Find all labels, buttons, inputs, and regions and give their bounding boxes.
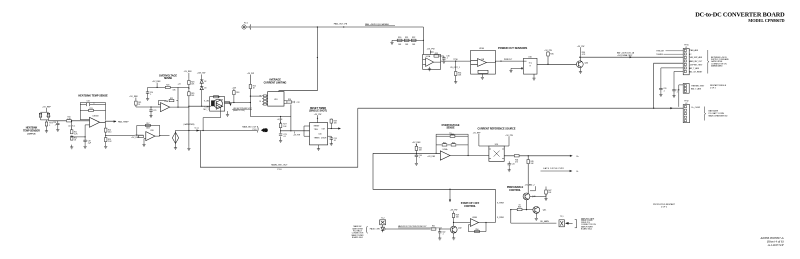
wire output to diamond xyxy=(155,135,170,138)
wire rail bottom to timer xyxy=(250,116,291,118)
svg-text:R17: R17 xyxy=(146,123,149,125)
arrowhead xyxy=(114,120,117,122)
svg-text:.1: .1 xyxy=(663,90,665,92)
svg-text:A-14163 S/P: A-14163 S/P xyxy=(767,243,784,247)
svg-text:TRIG: TRIG xyxy=(314,129,319,131)
rail wire down xyxy=(249,75,251,117)
svg-text:MODEL CPN8067D: MODEL CPN8067D xyxy=(748,18,784,23)
ground under Q42 xyxy=(453,233,455,236)
wire Q30 to connector J1 xyxy=(580,56,683,58)
junction at R23 node xyxy=(188,88,189,89)
svg-text:1K: 1K xyxy=(259,96,261,98)
svg-text:BOARD GB-1: BOARD GB-1 xyxy=(352,236,363,239)
resistor R48 xyxy=(517,208,522,210)
feedback loop xyxy=(436,134,468,155)
svg-text:TEMP SENSOR: TEMP SENSOR xyxy=(23,130,40,132)
feedback resistor R42 xyxy=(442,144,447,146)
svg-text:LM358: LM358 xyxy=(93,116,99,118)
svg-text:P2,1: P2,1 xyxy=(244,22,248,24)
op-amp U1A xyxy=(161,103,170,112)
op-amp U20A xyxy=(440,151,450,160)
svg-text:R1: R1 xyxy=(39,114,41,116)
bracket xyxy=(365,226,368,233)
transistor Q30 xyxy=(576,61,583,68)
svg-text:S_PWM: S_PWM xyxy=(497,202,504,204)
connector J2 body xyxy=(683,105,689,123)
svg-text:MAINBOARD: MAINBOARD xyxy=(711,65,723,68)
svg-text:R50: R50 xyxy=(475,229,478,231)
feedback resistor R17 xyxy=(143,124,145,127)
resistor R10 series xyxy=(67,120,72,122)
svg-text:P1-9: P1-9 xyxy=(253,129,257,131)
wire op-amp output xyxy=(441,60,471,62)
svg-text:DISCH: DISCH xyxy=(321,138,327,140)
feedback loop box xyxy=(137,125,160,135)
wire node down to SD_MAIN wire xyxy=(510,210,512,224)
ground xyxy=(279,138,282,142)
svg-text:.1: .1 xyxy=(150,94,151,96)
svg-text:SD_MAIN: SD_MAIN xyxy=(540,220,549,223)
capacitor C30 xyxy=(442,58,445,59)
svg-text:2 OF 2: 2 OF 2 xyxy=(710,87,716,89)
svg-text:R31: R31 xyxy=(405,37,408,39)
resistor R2 xyxy=(47,113,50,117)
bracket right of J2 xyxy=(705,107,706,121)
connector J1 body xyxy=(683,49,689,75)
output pins right xyxy=(284,101,287,104)
svg-text:THRES: THRES xyxy=(314,138,321,140)
resistor R23 xyxy=(188,73,190,78)
svg-text:BOARD GB-2: BOARD GB-2 xyxy=(581,228,592,231)
capacitor C21 below xyxy=(150,107,152,110)
resistor R44 xyxy=(514,155,519,157)
bypass cap C31 xyxy=(661,68,683,88)
resistor R47 with ground xyxy=(530,187,546,197)
resistor R15 xyxy=(104,138,107,142)
capacitor C20 to ground xyxy=(147,87,149,92)
stub + resistor R49 xyxy=(453,211,455,226)
svg-text:CURRENT LIMITING: CURRENT LIMITING xyxy=(264,81,287,84)
stub from label xyxy=(530,186,535,191)
resistor R29 xyxy=(188,92,191,96)
wire op-amp out to U24 xyxy=(450,155,489,157)
svg-text:BAT_CH_HIBNT: BAT_CH_HIBNT xyxy=(689,70,703,73)
svg-text:U24: U24 xyxy=(495,144,498,146)
svg-text:U20B: U20B xyxy=(472,217,477,219)
svg-text:R42: R42 xyxy=(443,142,446,144)
wire Q2 emitter down-left xyxy=(203,108,221,131)
svg-text:R22: R22 xyxy=(170,98,173,100)
svg-text:S_CL: S_CL xyxy=(195,128,200,130)
svg-text:HEATSINK TEMP SENSE: HEATSINK TEMP SENSE xyxy=(78,95,108,98)
ground under divider xyxy=(70,145,73,149)
svg-text:(SHEET 2 OF 6): (SHEET 2 OF 6) xyxy=(233,110,245,112)
svg-text:.1: .1 xyxy=(446,58,448,60)
svg-text:.1: .1 xyxy=(419,157,420,159)
wire main net up into pin 4 xyxy=(654,63,684,108)
op-amp U15A (in box) xyxy=(423,55,441,70)
resistor on box top xyxy=(214,96,219,98)
main long wire to J2 xyxy=(358,107,683,109)
wire: box outline xyxy=(200,108,357,167)
svg-text:R32: R32 xyxy=(412,37,415,39)
output wire xyxy=(328,128,340,130)
svg-text:T2,1: T2,1 xyxy=(560,216,564,218)
resistor R30 xyxy=(397,39,402,41)
svg-text:GATE DRIVE PWR: GATE DRIVE PWR xyxy=(543,167,564,170)
junction dots xyxy=(233,102,234,103)
junction node xyxy=(105,132,107,137)
svg-text:Q42: Q42 xyxy=(458,228,462,230)
bypass cap C32 xyxy=(674,72,683,90)
bracket xyxy=(575,220,577,228)
wire horizontal top xyxy=(148,87,189,99)
cap C41 under U24 xyxy=(508,161,510,163)
svg-text:THERM: THERM xyxy=(656,54,663,56)
ground under op-amp xyxy=(428,67,431,71)
lower pin group of J1 xyxy=(683,84,689,94)
svg-text:SENSE: SENSE xyxy=(446,127,455,130)
wire stub from +5V_REF xyxy=(41,108,49,121)
svg-text:+5V_REF: +5V_REF xyxy=(152,81,162,83)
bold arrow-dot symbol xyxy=(261,128,264,132)
svg-text:2 OF 2: 2 OF 2 xyxy=(661,206,668,208)
wire opto to Q42 xyxy=(383,228,451,230)
svg-text:+5V_REF: +5V_REF xyxy=(183,71,192,73)
ground under Q41 xyxy=(535,213,537,216)
svg-text:RESET: RESET xyxy=(314,126,320,128)
svg-text:CONTROL: CONTROL xyxy=(509,189,521,192)
svg-text:PWRCUT: PWRCUT xyxy=(504,59,513,61)
resistor R12 xyxy=(70,136,73,140)
svg-text:T1,2: T1,2 xyxy=(381,218,385,220)
svg-text:1K: 1K xyxy=(259,101,261,103)
wire node to op-amp xyxy=(416,152,440,154)
svg-text:BAT_T_ABS: BAT_T_ABS xyxy=(689,67,700,70)
svg-text:R41: R41 xyxy=(451,134,454,136)
svg-text:SENSE: SENSE xyxy=(164,77,173,80)
resistor R32 xyxy=(411,39,416,41)
svg-text:U20: U20 xyxy=(319,133,322,135)
feedback cap C34 xyxy=(80,104,105,106)
cap C23 xyxy=(279,134,282,135)
svg-text:+5V@50MA TEST: +5V@50MA TEST xyxy=(617,54,633,57)
wire stub lower pins down xyxy=(679,85,683,107)
svg-text:CONTROL: CONTROL xyxy=(464,205,476,208)
zener diode D3 xyxy=(201,83,203,86)
resistor R20 on wire xyxy=(165,86,170,88)
svg-text:+5V_PW: +5V_PW xyxy=(293,135,300,137)
ground xyxy=(442,59,445,63)
feedback loop xyxy=(158,100,178,107)
svg-text:FAN +24VDC@0.3A MAX: FAN +24VDC@0.3A MAX xyxy=(365,23,389,26)
resistor R45 xyxy=(527,160,530,164)
resistor R25 on rail xyxy=(249,85,252,89)
svg-text:BAT_T_ABS: BAT_T_ABS xyxy=(691,87,702,90)
svg-text:+24V_SW: +24V_SW xyxy=(197,73,206,75)
IC U19 xyxy=(268,92,284,107)
ground xyxy=(415,161,418,165)
op-amp U20B xyxy=(470,219,478,227)
svg-text:+24: +24 xyxy=(178,83,181,85)
rail from R44 node down xyxy=(527,156,529,193)
resistor R50 in loop xyxy=(475,230,480,232)
ground xyxy=(392,39,394,41)
resistor R14 xyxy=(105,122,107,128)
capacitor C29 xyxy=(84,137,86,140)
feedback loop wires xyxy=(80,103,105,120)
wire input from R14 node xyxy=(135,134,144,136)
junction on vertical xyxy=(317,57,318,58)
svg-text:U20A: U20A xyxy=(443,148,448,151)
wire sense node to op-amp xyxy=(49,120,90,122)
svg-text:.1µF: .1µF xyxy=(88,142,91,144)
svg-text:R20: R20 xyxy=(166,85,169,87)
svg-text:.01: .01 xyxy=(334,140,336,142)
junction to PWM enable xyxy=(528,155,529,156)
SD_MAIN wire xyxy=(511,222,557,224)
svg-text:.1: .1 xyxy=(54,124,55,126)
svg-text:+5V_BAT_2: +5V_BAT_2 xyxy=(524,183,534,186)
resistor R1 xyxy=(39,113,42,117)
wire: vertical x=317 from fan wire down xyxy=(316,27,318,91)
svg-text:MAIN_INV_OUT: MAIN_INV_OUT xyxy=(271,164,288,167)
arrowhead at end xyxy=(570,155,573,157)
left feedback wire xyxy=(304,126,310,136)
feedback resistor R43 xyxy=(451,144,456,146)
svg-text:MAIN CHARGER BD: MAIN CHARGER BD xyxy=(709,115,728,118)
wire node horizontal xyxy=(511,209,533,211)
svg-text:MC_T: MC_T xyxy=(204,109,210,111)
svg-text:D3: D3 xyxy=(204,88,206,90)
svg-text:C34: C34 xyxy=(86,101,89,103)
wire divider down xyxy=(71,121,73,145)
arrow symbol xyxy=(566,222,573,224)
svg-text:(GTP) S: (GTP) S xyxy=(27,134,36,136)
wire output right xyxy=(178,106,189,108)
zener diode D2 xyxy=(201,74,203,79)
wire op-amp output xyxy=(100,121,116,122)
bracket xyxy=(256,126,259,133)
timer IC U20 xyxy=(310,123,328,145)
wire: corner down to power cut sensor xyxy=(422,27,424,55)
cap C24 xyxy=(328,136,332,138)
wire fan +24V horizontal xyxy=(246,26,423,28)
feedback resistor R41 (top) xyxy=(450,135,455,137)
svg-text:RESTART SINGLE: RESTART SINGLE xyxy=(710,84,727,87)
feedback resistor R22 xyxy=(169,99,174,101)
svg-text:I_LIM: I_LIM xyxy=(204,107,209,109)
svg-text:+5V_REF: +5V_REF xyxy=(473,132,482,134)
junction on fan wire xyxy=(343,26,344,27)
wire Q40 emitter down to S_PWM node xyxy=(526,200,528,210)
wire stub + resistor R21 xyxy=(135,98,137,101)
svg-text:MAIN_INV_OUT: MAIN_INV_OUT xyxy=(689,60,703,63)
resistor R34 to ground xyxy=(455,61,457,71)
svg-text:C22: C22 xyxy=(297,102,300,104)
transistor Q40 xyxy=(523,193,530,200)
svg-text:D2: D2 xyxy=(204,81,206,83)
svg-text:S_PWM: S_PWM xyxy=(497,217,504,219)
connector box xyxy=(559,220,564,227)
resistor R11 xyxy=(70,130,73,134)
ground under RT1 xyxy=(46,126,48,129)
op-amp U15B (in box) xyxy=(471,50,496,74)
junction + cap C42 xyxy=(439,228,440,229)
svg-text:.1: .1 xyxy=(676,92,678,94)
svg-text:R33: R33 xyxy=(435,53,438,55)
wire tap right xyxy=(106,134,135,136)
svg-text:.01: .01 xyxy=(283,136,286,138)
resistor R33 xyxy=(431,51,434,53)
svg-text:.1: .1 xyxy=(93,103,94,105)
svg-text:Q41: Q41 xyxy=(543,210,547,212)
resistor R51 xyxy=(431,228,436,230)
wire node horizontal xyxy=(189,105,211,107)
rail stub xyxy=(415,144,417,162)
svg-text:POWER CUT SENSORS: POWER CUT SENSORS xyxy=(498,46,528,50)
svg-text:V_LIM: V_LIM xyxy=(204,101,209,103)
ground under diamond xyxy=(175,144,177,146)
svg-text:1: 1 xyxy=(49,125,50,127)
ground under U15B xyxy=(481,74,483,75)
pull-up resistor R28 xyxy=(330,118,332,120)
input pin resistors xyxy=(262,95,268,105)
svg-text:P.S. BATT CONN: P.S. BATT CONN xyxy=(709,112,725,115)
svg-text:FAN_OUT_FB: FAN_OUT_FB xyxy=(334,23,348,26)
arrowhead on wire xyxy=(197,129,200,131)
wire tap to op-amp plus input xyxy=(72,125,90,137)
stub to IC top xyxy=(317,115,319,122)
connector P2 fan output (double circle) xyxy=(242,24,251,29)
limiter box U9B xyxy=(210,97,225,111)
stub down from loop junction xyxy=(449,189,451,201)
svg-text:OUT: OUT xyxy=(322,128,326,130)
wire to op-amp minus xyxy=(151,106,161,108)
svg-text:R43: R43 xyxy=(452,142,455,144)
feedback loop below xyxy=(468,223,495,232)
IC U24 xyxy=(489,146,504,161)
wire stub down xyxy=(156,83,158,88)
svg-text:R35: R35 xyxy=(550,54,553,56)
resistor R16 on input xyxy=(139,135,144,137)
junction on loop xyxy=(449,189,450,190)
svg-text:HEATSINK: HEATSINK xyxy=(26,127,38,130)
small series element xyxy=(225,101,230,103)
ground under box xyxy=(227,111,229,112)
svg-text:.1: .1 xyxy=(442,234,443,236)
feedback resistor R13 xyxy=(80,109,105,111)
arrowhead on wire xyxy=(630,56,633,58)
svg-text:FAN_TEMP: FAN_TEMP xyxy=(118,121,129,124)
junction to IC xyxy=(250,96,251,97)
wire into timer xyxy=(281,130,310,132)
svg-text:+UV_REF: +UV_REF xyxy=(427,156,436,158)
svg-text:U5_OUT_1: U5_OUT_1 xyxy=(450,67,460,69)
svg-text:PTAB_ABS: PTAB_ABS xyxy=(689,49,699,52)
svg-text:TP30: TP30 xyxy=(453,59,457,61)
wire U24 output right xyxy=(504,155,571,157)
svg-text:46.4: 46.4 xyxy=(108,132,111,134)
svg-text:BAT/GATE: BAT/GATE xyxy=(709,109,719,112)
svg-text:R13: R13 xyxy=(89,108,92,110)
svg-text:CURRENT REFERENCE SOURCE: CURRENT REFERENCE SOURCE xyxy=(478,127,516,130)
output resistor R26 xyxy=(287,101,292,103)
svg-text:R24: R24 xyxy=(236,92,239,94)
thermistor RT1 xyxy=(46,120,48,122)
wire to U16 xyxy=(495,60,523,62)
op-amp U1B xyxy=(90,117,100,127)
svg-text:+5V_REF: +5V_REF xyxy=(129,96,139,98)
ground xyxy=(104,144,107,148)
test point diamond xyxy=(172,132,178,143)
transistor Q41 xyxy=(533,207,540,214)
svg-text:U15B: U15B xyxy=(479,48,485,50)
ground under timer xyxy=(318,145,320,147)
wire output up to loop xyxy=(494,189,496,222)
svg-text:R26: R26 xyxy=(288,99,291,101)
svg-text:+5V_REF: +5V_REF xyxy=(42,106,52,108)
wire to op-amp xyxy=(454,221,471,223)
wire diamond top to signal wire xyxy=(176,131,258,133)
junction at divider xyxy=(71,120,72,121)
svg-text:(GATE/PWM): (GATE/PWM) xyxy=(184,123,195,126)
svg-text:B+_CHGR: B+_CHGR xyxy=(692,107,701,109)
wire down from node to lower wire xyxy=(188,106,190,130)
svg-text:475: 475 xyxy=(515,162,518,164)
cap C40 xyxy=(415,155,418,156)
bracket right of J1 xyxy=(708,50,709,74)
svg-text:C41: C41 xyxy=(512,164,515,166)
svg-text:Q30: Q30 xyxy=(585,62,589,64)
svg-text:FAULT_SW: FAULT_SW xyxy=(370,228,380,231)
vertical from C22 node down xyxy=(290,105,292,131)
svg-text:+24_IN: +24_IN xyxy=(277,119,283,121)
resistor R31 xyxy=(404,39,409,41)
ground under U16 xyxy=(532,76,535,80)
wire stub xyxy=(430,50,432,54)
svg-text:R30: R30 xyxy=(398,37,401,39)
wire output xyxy=(225,102,251,104)
pins of J1 xyxy=(684,49,686,72)
IC U16 latch xyxy=(511,58,548,76)
resistor R40 xyxy=(415,146,418,150)
wire from PWM loop (x=373) xyxy=(373,153,495,189)
svg-text:+5V/PWR_TEST: +5V/PWR_TEST xyxy=(689,64,703,66)
down arrow off-page xyxy=(229,103,231,106)
op-amp U1D xyxy=(146,132,155,141)
output cap C22 xyxy=(293,101,295,103)
transistor Q2 xyxy=(214,99,223,108)
plus input stub + ground xyxy=(144,139,146,143)
capacitor C28 xyxy=(57,121,59,124)
ground under Q30 xyxy=(580,68,582,70)
svg-text:R2: R2 xyxy=(47,114,49,116)
svg-text:C21: C21 xyxy=(153,110,156,112)
wire through resistors xyxy=(394,39,424,41)
svg-text:THM_SNP_ABS: THM_SNP_ABS xyxy=(689,56,703,59)
svg-text:THERMR_TEST: THERMR_TEST xyxy=(691,86,705,88)
wire IC top to fan net vertical xyxy=(279,90,318,93)
transistor Q42 xyxy=(450,226,457,233)
svg-text:(SINGLE SHOT): (SINGLE SHOT) xyxy=(309,110,327,113)
svg-text:THM_INT: THM_INT xyxy=(656,51,665,53)
svg-text:R48: R48 xyxy=(518,206,521,208)
wire zener to node xyxy=(201,90,203,107)
arrowhead into J2 xyxy=(670,107,673,109)
svg-text:R51: R51 xyxy=(432,226,435,228)
ground at U16 input xyxy=(509,68,512,72)
